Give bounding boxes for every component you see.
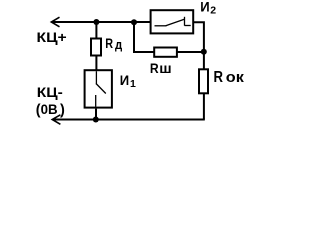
node C: junction of И1 branch on bottom rail: [93, 117, 99, 123]
svg-text:R: R: [150, 60, 159, 76]
svg-text:КЦ+: КЦ+: [37, 29, 67, 45]
wire: bottom horizontal rail: [53, 119, 205, 121]
label И1: [120, 72, 136, 90]
node D: junction of Rш wire and right vertical rail: [201, 49, 207, 55]
svg-text:д: д: [115, 37, 123, 52]
svg-text:R: R: [105, 35, 113, 51]
resistor Rд: [91, 39, 101, 56]
label (0В): [36, 101, 65, 118]
label Rок: [214, 69, 245, 86]
resistor Rш: [154, 48, 177, 57]
wire: И1 bottom to node C: [95, 109, 97, 120]
resistor Rок: [199, 69, 208, 93]
svg-text:И: И: [200, 0, 209, 15]
terminal arrow КЦ- (points left): [52, 115, 60, 125]
op-amp И2 box (measuring element 2): [151, 10, 194, 33]
label КЦ-: [37, 84, 63, 100]
label Rд: [105, 35, 123, 52]
wire: Rш right to node D: [177, 51, 204, 53]
svg-text:2: 2: [210, 5, 216, 17]
svg-text:): ): [60, 102, 65, 118]
label И2: [200, 0, 216, 17]
И1 internal contact symbol: [96, 71, 106, 107]
svg-text:КЦ-: КЦ-: [37, 84, 63, 100]
wire: node A down to Rд: [95, 22, 97, 38]
svg-text:1: 1: [130, 78, 136, 90]
wire: Rок bottom to bottom rail corner: [203, 93, 205, 119]
svg-text:0В: 0В: [41, 101, 58, 117]
label КЦ+: [37, 29, 67, 45]
node B: junction of Rш branch on top rail: [131, 19, 137, 25]
label Rш: [150, 60, 172, 76]
op-amp И1 box (measuring element 1): [85, 70, 112, 107]
svg-text:И: И: [120, 72, 129, 88]
node A: junction of Rд branch on top rail: [93, 19, 99, 25]
wire: Rд bottom to И1 top: [95, 57, 97, 71]
svg-text:ш: ш: [159, 60, 171, 76]
wire: top horizontal rail КЦ+ to И2: [52, 21, 151, 23]
wire: И2 right lead to right vertical rail: [194, 22, 204, 52]
wire: node B down and right to Rш: [134, 22, 154, 52]
svg-text:ок: ок: [226, 69, 245, 86]
terminal arrow КЦ+ (points left): [51, 17, 59, 27]
svg-text:R: R: [214, 69, 224, 86]
И2 internal contact symbol: [155, 17, 191, 26]
wire: node D down to Rок: [203, 52, 205, 69]
